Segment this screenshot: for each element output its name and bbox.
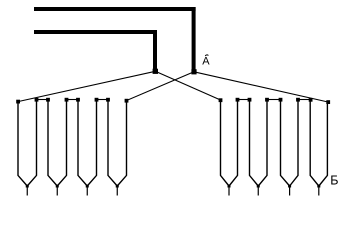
svg-text:Б: Б — [330, 174, 338, 188]
svg-text:А: А — [202, 56, 210, 68]
